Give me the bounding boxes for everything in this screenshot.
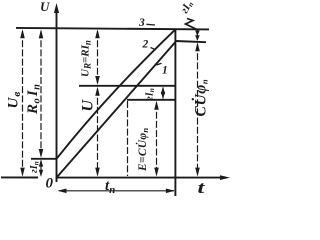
svg-text:U: U xyxy=(40,0,50,14)
svg-text:E=CU̇φп: E=CU̇φп xyxy=(135,128,150,172)
svg-text:гIп: гIп xyxy=(145,88,157,100)
svg-text:UR=RIп: UR=RIп xyxy=(80,40,93,77)
svg-text:0: 0 xyxy=(46,176,54,192)
svg-text:2: 2 xyxy=(142,39,149,51)
svg-text:гIп: гIп xyxy=(29,161,41,173)
svg-text:U: U xyxy=(80,99,97,112)
svg-text:CU̇φп: CU̇φп xyxy=(192,79,209,117)
svg-text:3: 3 xyxy=(138,17,145,29)
svg-text:1: 1 xyxy=(162,65,168,77)
